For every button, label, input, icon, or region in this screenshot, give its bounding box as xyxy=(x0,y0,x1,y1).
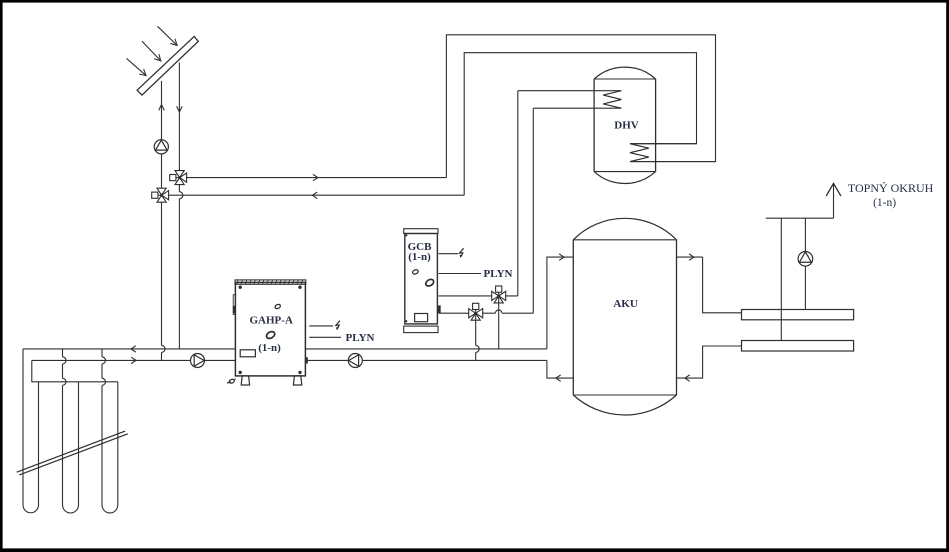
svg-text:PLYN: PLYN xyxy=(346,332,375,344)
svg-text:PLYN: PLYN xyxy=(484,268,513,280)
svg-text:(1-n): (1-n) xyxy=(873,197,896,209)
svg-text:(1-n): (1-n) xyxy=(408,251,431,263)
svg-text:AKU: AKU xyxy=(613,298,638,310)
svg-text:TOPNÝ OKRUH: TOPNÝ OKRUH xyxy=(848,181,934,195)
svg-text:GAHP-A: GAHP-A xyxy=(250,314,293,326)
svg-text:DHV: DHV xyxy=(614,120,639,132)
svg-text:(1-n): (1-n) xyxy=(258,342,281,354)
